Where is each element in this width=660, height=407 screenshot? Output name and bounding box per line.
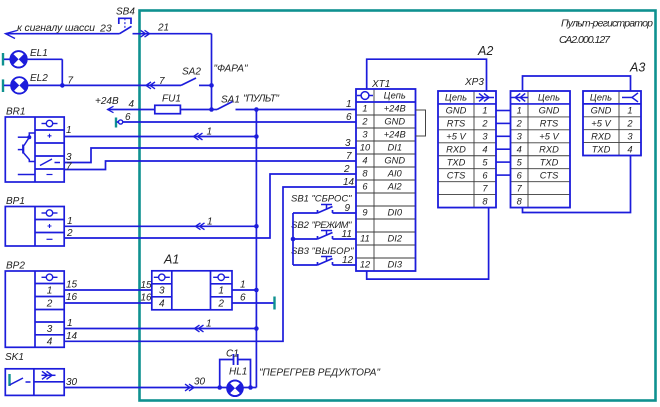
svg-text:+5 V: +5 V bbox=[446, 132, 466, 142]
svg-text:GND: GND bbox=[446, 106, 467, 116]
svg-text:15: 15 bbox=[66, 280, 78, 291]
svg-text:BP1: BP1 bbox=[6, 196, 25, 207]
wire: BP1 pin2 to XT1 AI0 bbox=[64, 174, 356, 238]
svg-text:1: 1 bbox=[67, 216, 73, 227]
svg-text:СА2.000.127: СА2.000.127 bbox=[559, 34, 611, 46]
wire: BP1 pin1 to +24V bus bbox=[64, 225, 256, 227]
svg-text:3: 3 bbox=[159, 286, 165, 297]
wire: SB common bus bbox=[292, 213, 294, 265]
switch SK1 bbox=[5, 369, 64, 396]
connector XT1 table bbox=[356, 89, 416, 271]
power supply BP2 bbox=[5, 271, 64, 347]
lamp EL1 bbox=[2, 53, 4, 66]
wire: к сигналу шасси (net 23) bbox=[6, 31, 120, 39]
svg-text:BP2: BP2 bbox=[6, 261, 25, 272]
svg-text:11: 11 bbox=[342, 229, 352, 240]
jumper XT1 pins 1-3 bbox=[416, 110, 426, 136]
svg-text:FU1: FU1 bbox=[162, 94, 181, 105]
continuation mark 1 bbox=[194, 133, 203, 140]
bus: +24V vertical distribution bbox=[255, 110, 257, 388]
switch SA1 bbox=[212, 109, 218, 111]
power supply BP1 bbox=[5, 207, 64, 247]
svg-text:HL1: HL1 bbox=[229, 367, 247, 378]
svg-text:4: 4 bbox=[159, 299, 165, 310]
svg-text:A2: A2 bbox=[477, 44, 493, 58]
svg-text:+5 V: +5 V bbox=[539, 132, 559, 142]
svg-text:+24В: +24В bbox=[384, 104, 406, 114]
svg-text:3: 3 bbox=[517, 132, 523, 142]
svg-text:6: 6 bbox=[125, 112, 131, 123]
wire: BP2 pin2 to A1 (16) bbox=[64, 302, 152, 304]
connector XP3 table bbox=[438, 91, 496, 208]
svg-text:4: 4 bbox=[129, 99, 135, 110]
svg-text:EL2: EL2 bbox=[30, 73, 48, 84]
continuation mark 1 bbox=[196, 223, 205, 230]
wire: BP2 pin4 to XT1 AI2 (14) bbox=[64, 187, 356, 341]
wire: BP2 pin1 to A1 (15) bbox=[64, 289, 152, 291]
svg-text:DI1: DI1 bbox=[388, 143, 402, 153]
svg-text:2: 2 bbox=[481, 119, 488, 129]
wire: bus to wire30 bbox=[251, 387, 257, 389]
node: FU1/SB4/SA1 bbox=[209, 107, 214, 112]
svg-text:8: 8 bbox=[517, 196, 523, 206]
svg-text:1: 1 bbox=[627, 106, 632, 116]
svg-text:6: 6 bbox=[362, 182, 368, 192]
svg-text:1: 1 bbox=[362, 104, 367, 114]
wire: 6 (GND) with open terminal bbox=[115, 118, 117, 128]
svg-text:7: 7 bbox=[159, 76, 165, 87]
continuation mark 30 bbox=[185, 384, 194, 391]
svg-text:15: 15 bbox=[141, 280, 153, 291]
pushbutton SB4 bbox=[119, 18, 212, 33]
svg-text:к сигналу шасси: к сигналу шасси bbox=[17, 22, 95, 34]
svg-text:XT1: XT1 bbox=[371, 79, 390, 90]
svg-text:7: 7 bbox=[68, 76, 74, 87]
wire: BR1 pin3 to XT1 DI1 bbox=[64, 148, 356, 163]
svg-text:1: 1 bbox=[240, 280, 246, 291]
pushbutton SB3 "ВЫБОР" bbox=[293, 257, 356, 266]
wire: vertical from SB4 net to SA1/FU1 node bbox=[211, 34, 213, 110]
svg-text:DI0: DI0 bbox=[388, 208, 403, 218]
svg-text:6: 6 bbox=[482, 170, 488, 180]
svg-text:"ПЕРЕГРЕВ РЕДУКТОРА": "ПЕРЕГРЕВ РЕДУКТОРА" bbox=[259, 368, 380, 379]
lamp EL2 bbox=[2, 79, 4, 92]
svg-text:3: 3 bbox=[627, 131, 633, 141]
A2 bracket top bbox=[367, 59, 487, 91]
fuse FU1 bbox=[155, 105, 181, 113]
A2 bracket bottom bbox=[367, 208, 489, 280]
svg-text:RXD: RXD bbox=[539, 144, 559, 154]
svg-text:TXD: TXD bbox=[592, 144, 611, 154]
svg-text:SA2: SA2 bbox=[182, 67, 201, 78]
svg-text:GND: GND bbox=[384, 156, 405, 166]
svg-text:12: 12 bbox=[360, 260, 371, 270]
svg-text:2: 2 bbox=[217, 299, 224, 310]
BR1 socket symbol bbox=[42, 120, 58, 126]
pushbutton SB2 "РЕЖИМ" bbox=[293, 231, 356, 240]
svg-text:RXD: RXD bbox=[591, 131, 611, 141]
svg-text:7: 7 bbox=[517, 183, 523, 193]
svg-text:"ПУЛЬТ": "ПУЛЬТ" bbox=[243, 94, 279, 105]
svg-text:10: 10 bbox=[360, 143, 371, 153]
links XP3 to mating connector bbox=[496, 111, 511, 176]
wire: BR1 pin1 to +24V bus bbox=[64, 136, 256, 138]
svg-text:5: 5 bbox=[482, 157, 488, 167]
BR1 minus bbox=[47, 174, 53, 176]
wire: 30 to HL1 bbox=[64, 387, 250, 389]
svg-text:C1: C1 bbox=[226, 349, 239, 360]
svg-text:14: 14 bbox=[66, 331, 78, 342]
svg-text:RXD: RXD bbox=[446, 144, 466, 154]
svg-text:8: 8 bbox=[362, 169, 368, 179]
svg-text:4: 4 bbox=[47, 337, 53, 348]
svg-text:A1: A1 bbox=[163, 253, 179, 267]
lamp HL1 bbox=[217, 385, 222, 390]
svg-text:1: 1 bbox=[66, 125, 72, 136]
frame: pult-registrator boundary (teal) bbox=[140, 11, 656, 401]
svg-text:CTS: CTS bbox=[447, 170, 466, 180]
BR1 transistor bbox=[18, 133, 35, 162]
svg-text:GND: GND bbox=[591, 106, 612, 116]
svg-text:EL1: EL1 bbox=[30, 48, 48, 59]
svg-text:GND: GND bbox=[539, 106, 560, 116]
module A1 bbox=[152, 271, 232, 310]
switch SA2 bbox=[181, 78, 196, 85]
svg-text:1: 1 bbox=[517, 106, 522, 116]
svg-text:SK1: SK1 bbox=[5, 352, 24, 363]
svg-text:4: 4 bbox=[482, 144, 487, 154]
svg-text:GND: GND bbox=[384, 117, 405, 127]
svg-text:SA1: SA1 bbox=[221, 95, 240, 106]
svg-text:12: 12 bbox=[342, 255, 354, 266]
svg-text:1: 1 bbox=[482, 106, 487, 116]
wire: BR1 pin7 to XT1 GND bbox=[64, 161, 356, 170]
svg-text:RTS: RTS bbox=[447, 119, 466, 129]
svg-text:CTS: CTS bbox=[540, 170, 559, 180]
wire: A1 pin2 to chassis terminal (6) bbox=[232, 302, 275, 304]
svg-text:14: 14 bbox=[343, 177, 355, 188]
svg-text:9: 9 bbox=[345, 203, 351, 214]
svg-text:3: 3 bbox=[482, 132, 488, 142]
node: +24V bus tap bbox=[254, 107, 259, 112]
wire: EL1 drop to node 7 bbox=[61, 59, 63, 85]
sensor BR1 bbox=[5, 117, 64, 182]
svg-text:1: 1 bbox=[47, 286, 53, 297]
svg-text:7: 7 bbox=[346, 151, 352, 162]
svg-text:7: 7 bbox=[66, 162, 72, 173]
svg-text:4: 4 bbox=[627, 144, 632, 154]
svg-text:9: 9 bbox=[362, 208, 367, 218]
svg-text:+24В: +24В bbox=[95, 96, 119, 107]
svg-text:1: 1 bbox=[207, 127, 213, 138]
svg-text:"ФАРА": "ФАРА" bbox=[214, 64, 248, 75]
svg-text:TXD: TXD bbox=[447, 157, 466, 167]
svg-text:TXD: TXD bbox=[540, 157, 559, 167]
svg-text:23: 23 bbox=[99, 23, 112, 35]
svg-text:4: 4 bbox=[517, 144, 522, 154]
svg-text:AI2: AI2 bbox=[387, 182, 403, 192]
svg-text:8: 8 bbox=[482, 196, 488, 206]
svg-text:Пульт-регистратор: Пульт-регистратор bbox=[561, 18, 653, 30]
svg-text:SB4: SB4 bbox=[116, 7, 135, 18]
svg-text:RTS: RTS bbox=[540, 119, 559, 129]
svg-text:16: 16 bbox=[141, 293, 153, 304]
capacitor C1 bbox=[220, 354, 251, 388]
svg-text:30: 30 bbox=[194, 377, 206, 388]
svg-text:Цепь: Цепь bbox=[538, 93, 560, 103]
svg-text:+5 V: +5 V bbox=[591, 118, 611, 128]
connector A3 table bbox=[583, 91, 641, 156]
BR1 plus bbox=[48, 134, 52, 138]
svg-text:3: 3 bbox=[345, 138, 351, 149]
svg-text:DI2: DI2 bbox=[388, 234, 403, 244]
continuation mark 21 bbox=[141, 30, 150, 37]
svg-text:6: 6 bbox=[346, 112, 352, 123]
wire: BP2 pin3 to +24V bus bbox=[64, 328, 256, 330]
node: junction EL1/EL2 bbox=[60, 83, 65, 88]
svg-text:Цепь: Цепь bbox=[445, 93, 467, 103]
svg-text:7: 7 bbox=[482, 183, 488, 193]
svg-text:1: 1 bbox=[207, 217, 213, 228]
svg-text:3: 3 bbox=[362, 130, 368, 140]
svg-text:4: 4 bbox=[362, 156, 367, 166]
svg-text:5: 5 bbox=[517, 157, 523, 167]
A3 bracket bottom bbox=[523, 156, 631, 213]
svg-text:2: 2 bbox=[343, 164, 350, 175]
svg-text:3: 3 bbox=[47, 324, 53, 335]
svg-text:+24В: +24В bbox=[384, 130, 406, 140]
continuation mark 1 bbox=[195, 325, 204, 332]
svg-text:2: 2 bbox=[361, 117, 368, 127]
svg-text:A3: A3 bbox=[629, 61, 645, 75]
svg-text:1: 1 bbox=[346, 99, 352, 110]
wire: A1 pin1 to +24V bus bbox=[232, 289, 256, 291]
pushbutton SB1 "СБРОС" bbox=[293, 205, 356, 214]
svg-text:30: 30 bbox=[66, 377, 78, 388]
svg-text:11: 11 bbox=[360, 234, 370, 244]
svg-text:2: 2 bbox=[66, 228, 73, 239]
svg-text:21: 21 bbox=[157, 23, 169, 34]
svg-text:DI3: DI3 bbox=[388, 260, 403, 270]
svg-text:6: 6 bbox=[240, 293, 246, 304]
svg-text:1: 1 bbox=[206, 319, 212, 330]
BR1 switch cell bbox=[40, 159, 60, 166]
wire: +24V feed with arrow bbox=[108, 106, 155, 112]
svg-text:6: 6 bbox=[517, 170, 523, 180]
svg-text:2: 2 bbox=[46, 299, 53, 310]
svg-text:2: 2 bbox=[626, 118, 633, 128]
svg-text:BR1: BR1 bbox=[6, 107, 25, 118]
svg-text:Цепь: Цепь bbox=[590, 93, 612, 103]
svg-text:1: 1 bbox=[67, 318, 73, 329]
svg-text:XP3: XP3 bbox=[464, 77, 484, 88]
svg-text:16: 16 bbox=[66, 292, 78, 303]
svg-text:Цепь: Цепь bbox=[384, 91, 406, 101]
svg-text:2: 2 bbox=[516, 119, 523, 129]
A3 bracket top bbox=[523, 76, 631, 91]
BR1 minus lead bbox=[18, 174, 35, 176]
svg-text:SB1: SB1 bbox=[291, 194, 309, 205]
svg-text:1: 1 bbox=[218, 286, 224, 297]
svg-text:AI0: AI0 bbox=[387, 169, 403, 179]
continuation mark 7 bbox=[146, 82, 155, 89]
connector X (mating of XP3) table bbox=[510, 91, 570, 208]
